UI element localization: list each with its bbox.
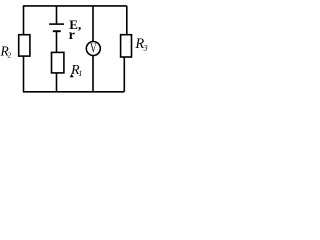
resistor R2 (box on left border) bbox=[19, 35, 30, 56]
voltmeter U1 circle bbox=[86, 42, 100, 56]
label r bbox=[69, 28, 75, 43]
wire: outer loop bottom border bbox=[23, 91, 124, 93]
svg-text:R3: R3 bbox=[134, 36, 147, 53]
battery E: short plate bbox=[53, 30, 61, 32]
wire: battery branch upper stub bbox=[56, 6, 58, 24]
wire: outer loop top border bbox=[23, 5, 127, 7]
stray mark near R1 subscript bbox=[70, 74, 74, 77]
label E, bbox=[69, 17, 81, 32]
voltmeter V letter bbox=[90, 41, 97, 56]
wire: right border lower segment (from R3 box to bottom) bbox=[123, 56, 125, 92]
label R1 bbox=[70, 63, 82, 78]
label R3 bbox=[134, 36, 147, 53]
battery E: long plate bbox=[49, 23, 64, 25]
svg-text:V: V bbox=[90, 41, 97, 56]
resistor R1 (box on battery branch) bbox=[52, 52, 64, 73]
svg-text:R2: R2 bbox=[0, 43, 11, 59]
wire: battery to R1 box and down to bottom border bbox=[56, 31, 58, 92]
label R2 bbox=[0, 43, 11, 59]
resistor R3 (box on right border) bbox=[121, 35, 132, 57]
svg-text:r: r bbox=[69, 28, 75, 43]
wire: voltmeter branch bbox=[92, 6, 94, 92]
wire: left border (through R2) bbox=[23, 6, 25, 92]
wire: right border upper segment (to R3 box) bbox=[126, 6, 128, 36]
